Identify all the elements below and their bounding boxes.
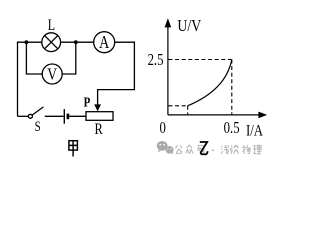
watermark middle dot (212, 149, 214, 151)
dashed line small U (169, 105, 188, 107)
svg-text:0: 0 (160, 120, 166, 138)
ammeter A1 (94, 32, 115, 53)
graph x-axis I/A (168, 112, 267, 119)
slider arrow P (arrowhead) (94, 104, 101, 111)
wire voltmeter branch left (26, 42, 42, 74)
switch S (28, 107, 43, 118)
svg-text:S: S (35, 119, 41, 135)
svg-text:A: A (99, 34, 110, 53)
svg-text:U/V: U/V (177, 17, 201, 35)
node junction dot left (voltmeter tap) (25, 40, 29, 44)
svg-text:0.5: 0.5 (224, 119, 240, 137)
wire switch to battery (45, 115, 64, 117)
svg-text:V: V (47, 65, 57, 84)
graph y-axis U/V (165, 18, 172, 115)
battery cell (64, 109, 68, 124)
svg-text:R: R (94, 121, 103, 139)
wire left side (top-left corner to bottom-left corner) (17, 42, 19, 116)
watermark wechat icon (157, 141, 174, 155)
svg-text:L: L (48, 17, 55, 35)
label 甲 (figure A) (69, 141, 78, 157)
dashed line I=0.5 (231, 60, 233, 115)
svg-text:I/A: I/A (246, 122, 264, 140)
watermark char 物 (242, 145, 250, 154)
dashed line U=2.5 (169, 59, 232, 61)
watermark char 众 (186, 145, 193, 154)
wire lamp to ammeter (61, 41, 94, 43)
wire voltmeter branch right (62, 42, 76, 74)
watermark char 公 (175, 145, 182, 153)
wire ammeter to right corner, down and left to slider arrow (98, 42, 135, 104)
watermark char 理 (253, 145, 261, 153)
watermark char 号 (197, 145, 205, 154)
lamp L symbol (42, 33, 61, 52)
dashed line small I (187, 106, 189, 115)
svg-text:P: P (84, 94, 91, 110)
svg-text:2.5: 2.5 (148, 52, 164, 70)
wire bottom-left to switch (18, 115, 29, 117)
watermark char 浅 (221, 145, 229, 154)
rheostat R body (86, 112, 113, 121)
wire top-left segment to lamp (17, 41, 42, 43)
voltmeter V1 (42, 64, 62, 84)
wire battery to rheostat (69, 115, 86, 117)
label 乙 (figure B) (200, 142, 208, 154)
watermark char 谈 (231, 145, 239, 154)
node junction dot right (voltmeter tap) (74, 40, 78, 44)
U-I curve (188, 60, 232, 106)
